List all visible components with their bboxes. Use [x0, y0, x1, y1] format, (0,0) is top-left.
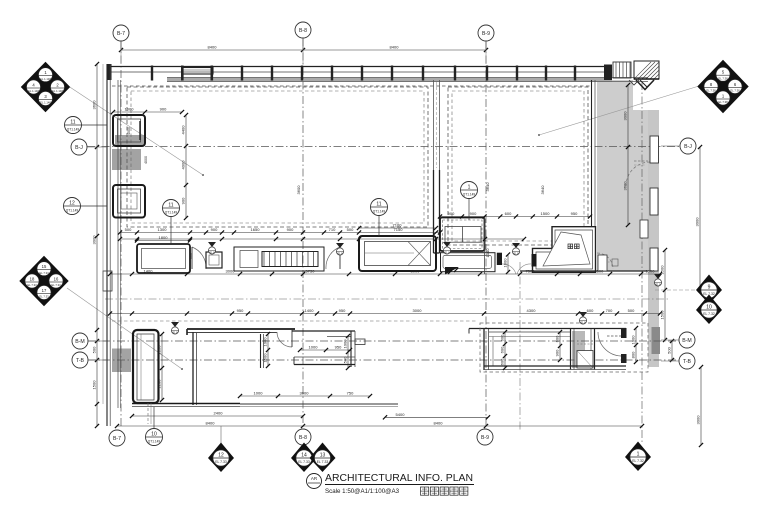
counter chain right part	[438, 211, 592, 219]
door arc lower-right room	[598, 332, 621, 356]
svg-text:B1.8: B1.8	[173, 332, 179, 335]
door dashed line right room	[607, 335, 621, 337]
grid line B-9 vertical	[485, 41, 487, 429]
small marker corridor	[605, 259, 618, 266]
svg-text:EL 7.33: EL 7.33	[215, 460, 227, 464]
wall edge x484	[484, 217, 486, 274]
leader from top-left cluster	[69, 87, 204, 177]
svg-text:EL 7.38: EL 7.38	[730, 89, 740, 93]
door arc lower-left room	[277, 329, 292, 347]
grey fixture lower right room	[572, 331, 585, 368]
ceiling dashed line top	[112, 85, 590, 87]
diamond cluster top-right	[698, 61, 748, 113]
grid bubble B-7 bottom	[109, 430, 125, 446]
bottom wall mid section	[240, 404, 398, 407]
mini dim vertical x158 cab	[157, 332, 165, 402]
cabinet upper-left 1	[113, 115, 145, 146]
svg-text:1500: 1500	[646, 269, 656, 274]
svg-text:600: 600	[500, 358, 505, 365]
room2 right wall	[592, 80, 596, 270]
svg-text:QT1.149: QT1.149	[148, 440, 161, 444]
svg-text:500: 500	[125, 227, 132, 232]
svg-text:950: 950	[339, 308, 346, 313]
svg-text:1800: 1800	[159, 235, 169, 240]
top dim chain	[119, 45, 488, 53]
svg-text:B-M: B-M	[682, 338, 692, 344]
svg-text:QT1.149: QT1.149	[66, 209, 79, 213]
svg-text:EL 7.33: EL 7.33	[317, 460, 329, 464]
title AR circle	[307, 474, 322, 489]
mini dim bottom lower-left	[238, 391, 372, 399]
room2 ceiling dashed rect	[448, 87, 588, 245]
grey cabinet fill	[115, 135, 144, 146]
svg-text:900: 900	[470, 211, 477, 216]
svg-text:8400: 8400	[208, 45, 218, 50]
counter B sofa	[359, 236, 436, 271]
svg-text:12: 12	[218, 453, 224, 459]
left dim chain vertical	[92, 62, 100, 428]
leader from top-right cluster	[538, 86, 699, 136]
duct shaft white box	[577, 344, 593, 368]
grey block strip dark	[652, 327, 661, 354]
title text	[325, 472, 473, 484]
svg-text:4000: 4000	[181, 160, 186, 170]
diamond cluster top-left	[22, 63, 70, 112]
svg-text:EL 7.38: EL 7.38	[718, 100, 728, 104]
svg-text:1000: 1000	[503, 258, 508, 268]
svg-text:1000: 1000	[263, 337, 268, 347]
svg-text:600: 600	[500, 346, 505, 353]
svg-text:B1.8: B1.8	[445, 252, 451, 255]
svg-text:11: 11	[168, 203, 173, 209]
grid corridor centerline horizontal	[105, 298, 668, 300]
svg-text:17: 17	[42, 288, 47, 293]
grey corridor right	[597, 80, 648, 271]
interior dim label x193	[189, 253, 193, 259]
svg-text:EL 1.148: EL 1.148	[28, 89, 39, 93]
svg-text:QT1.149: QT1.149	[67, 128, 80, 132]
right dim vertical x708	[696, 365, 704, 447]
grid line B-M horizontal	[88, 340, 679, 342]
svg-text:12: 12	[69, 201, 75, 207]
svg-text:B-J: B-J	[684, 144, 692, 150]
diamond 9 leader	[655, 289, 696, 291]
cabinet lower-left tall	[133, 330, 159, 403]
svg-text:Scale 1:50@A1/1:100@A3: Scale 1:50@A1/1:100@A3	[325, 488, 399, 495]
svg-text:3640: 3640	[540, 185, 545, 195]
svg-text:16: 16	[54, 277, 59, 282]
svg-text:10: 10	[706, 305, 712, 311]
svg-text:500: 500	[628, 308, 635, 313]
cabinet upper-left 2	[113, 185, 145, 218]
svg-text:600: 600	[587, 308, 594, 313]
svg-text:900: 900	[211, 227, 218, 232]
grid bubble B-M right	[661, 332, 695, 348]
svg-text:EL 7.38: EL 7.38	[718, 76, 728, 80]
svg-text:3000: 3000	[696, 415, 701, 425]
marker counter 1	[208, 242, 216, 255]
console center outer	[234, 247, 324, 271]
hatch block diagonal	[634, 61, 659, 79]
svg-text:EL 1.148: EL 1.148	[40, 101, 51, 105]
svg-text:T-B: T-B	[683, 359, 692, 365]
svg-text:1500: 1500	[660, 265, 665, 275]
bottom dim 2400	[130, 411, 305, 419]
room1 ceiling dashed rect	[127, 87, 428, 227]
svg-text:QT1.149: QT1.149	[165, 211, 178, 215]
double door arcs	[502, 264, 531, 274]
left wall inner lines	[118, 80, 121, 408]
callout circle bottom 10	[146, 407, 163, 446]
svg-text:9: 9	[708, 285, 711, 291]
svg-text:600: 600	[505, 211, 512, 216]
hatch block vertical lines	[613, 62, 631, 78]
mini dim cabinet A	[135, 235, 192, 243]
svg-text:710: 710	[329, 227, 336, 232]
svg-text:700: 700	[606, 308, 613, 313]
left dim chain vertical 2	[102, 64, 104, 404]
side table small	[206, 252, 222, 268]
svg-text:900: 900	[287, 227, 294, 232]
corridor door arc lower	[597, 253, 613, 269]
svg-text:600: 600	[555, 335, 560, 342]
top wall band lines	[167, 78, 648, 82]
svg-text:EL 7.38: EL 7.38	[706, 89, 716, 93]
grid bubble B-M left	[72, 333, 107, 349]
svg-text:5400: 5400	[396, 412, 406, 417]
door arc right of console	[326, 247, 340, 269]
wall stub x260	[261, 334, 264, 368]
grid line right vertical x642	[641, 82, 643, 443]
chevron marks under hatch	[629, 80, 654, 90]
corridor dim chain lower	[108, 308, 662, 316]
svg-text:1500: 1500	[541, 211, 551, 216]
svg-text:15: 15	[42, 264, 47, 269]
svg-text:600: 600	[189, 253, 193, 259]
svg-text:1400: 1400	[305, 308, 315, 313]
mini dim top room1	[111, 107, 184, 115]
svg-text:7500: 7500	[526, 269, 536, 274]
grid bubble B-8 top	[295, 22, 311, 50]
svg-text:8400: 8400	[206, 421, 216, 426]
console center striped unit	[262, 252, 318, 267]
grid bubble T-B left	[72, 352, 107, 368]
svg-text:1000: 1000	[343, 339, 348, 349]
lower-right room bottom wall	[484, 366, 626, 370]
corridor door arc upper	[626, 161, 650, 186]
svg-text:T-B: T-B	[76, 358, 85, 364]
callout circle room2	[461, 182, 478, 221]
svg-text:3000: 3000	[92, 235, 97, 245]
svg-text:3000: 3000	[623, 111, 628, 121]
wall mid y331	[292, 331, 355, 337]
svg-text:600: 600	[597, 269, 604, 274]
svg-text:1650: 1650	[251, 227, 261, 232]
svg-text:EL 7.33: EL 7.33	[51, 283, 61, 287]
svg-text:B-J: B-J	[75, 145, 83, 151]
dim y417 segment	[383, 412, 490, 420]
cabinet lower lines	[148, 403, 151, 424]
svg-text:B1.8: B1.8	[338, 253, 344, 256]
svg-text:2400: 2400	[214, 411, 224, 416]
interior dim labels x545	[540, 185, 545, 195]
mini dim vertical x505	[500, 330, 508, 370]
diamond 12 leader	[220, 426, 222, 444]
callout circle room1 left	[163, 200, 180, 245]
svg-text:10: 10	[151, 432, 157, 438]
corridor wall below shaft	[520, 270, 648, 272]
svg-text:3000: 3000	[300, 391, 310, 396]
grid bubble T-B right	[661, 353, 695, 369]
mini dim vertical room1 left	[181, 113, 189, 220]
grey block left lower	[112, 349, 131, 373]
svg-text:B-7: B-7	[113, 436, 121, 442]
svg-text:3600: 3600	[623, 181, 628, 191]
svg-text:4000: 4000	[144, 156, 148, 164]
counter C lower shelf	[441, 253, 496, 272]
svg-text:8400: 8400	[434, 421, 444, 426]
grid line B-8 vertical	[302, 38, 304, 449]
counter A left	[137, 244, 190, 273]
shaft jamb black	[532, 254, 537, 267]
svg-text:500: 500	[343, 356, 348, 363]
mini dim above cabinet B	[357, 223, 438, 231]
svg-text:EL 7.33: EL 7.33	[298, 460, 310, 464]
right dim vertical x672	[667, 339, 675, 362]
svg-text:500: 500	[92, 346, 97, 353]
svg-text:4400: 4400	[181, 125, 186, 135]
door jamb x497	[497, 253, 502, 265]
mini dim corridor right v	[660, 248, 668, 342]
corridor slot middle	[650, 188, 658, 215]
grid line B-J horizontal	[87, 146, 680, 148]
svg-text:B-8: B-8	[299, 28, 307, 34]
marker lower right	[579, 312, 587, 325]
svg-text:900: 900	[448, 211, 455, 216]
title underline	[325, 484, 474, 486]
marker counter 2	[336, 243, 344, 256]
grid line B-7 vertical	[120, 41, 122, 428]
callout circle 11 left-top	[65, 117, 108, 134]
svg-text:4300: 4300	[527, 308, 537, 313]
white notch under hatch	[633, 80, 659, 110]
svg-text:1000: 1000	[631, 335, 636, 345]
corridor white box	[598, 255, 607, 271]
wall lower corridor y357	[294, 357, 355, 365]
counter dim chain second	[118, 237, 526, 241]
top wall outer line	[107, 66, 612, 68]
svg-text:3000: 3000	[411, 269, 421, 274]
svg-text:11: 11	[376, 202, 381, 208]
svg-text:EL 7.32: EL 7.32	[703, 312, 715, 316]
wall vertical x193	[193, 332, 197, 405]
svg-text:1040: 1040	[485, 248, 490, 258]
svg-text:1500: 1500	[660, 310, 665, 320]
svg-text:3000: 3000	[695, 217, 700, 227]
left wall outer lines	[107, 64, 110, 426]
svg-text:750: 750	[347, 391, 354, 396]
diamond cluster left	[20, 257, 68, 306]
marker left of shaft	[512, 243, 520, 256]
svg-text:3000: 3000	[226, 269, 236, 274]
svg-text:B-9: B-9	[481, 435, 489, 441]
svg-text:2150: 2150	[157, 345, 162, 355]
svg-text:QT1.149: QT1.149	[463, 193, 476, 197]
corridor left end box	[103, 271, 112, 291]
svg-text:950: 950	[335, 345, 342, 350]
grid line x520 vertical	[519, 262, 521, 430]
grey column strip right	[648, 80, 659, 367]
marker above wall x175	[171, 322, 179, 335]
svg-text:1500: 1500	[92, 380, 97, 390]
svg-text:EL 1.148: EL 1.148	[40, 77, 51, 81]
mini dim vertical x268 room	[263, 332, 271, 368]
divider wall between rooms	[434, 80, 440, 253]
lower-right room top wall	[469, 329, 626, 334]
lower-right room left wall	[484, 328, 489, 370]
grid bubble B-7 top	[113, 25, 129, 50]
callout circle room1 right	[371, 199, 388, 237]
marker counter 3	[443, 242, 451, 255]
svg-text:1000: 1000	[309, 345, 319, 350]
wall lower y330 left	[187, 329, 295, 335]
diamond 13 bottom	[310, 443, 336, 473]
door arc counter A	[192, 247, 206, 269]
lower rooms dashed top line	[112, 320, 478, 322]
svg-text:1300: 1300	[158, 227, 168, 232]
interior dim labels cabinet1	[127, 127, 148, 164]
svg-text:1000: 1000	[254, 391, 264, 396]
svg-text:B-M: B-M	[75, 339, 85, 345]
svg-text:3600: 3600	[92, 100, 97, 110]
top wall corner post left	[107, 64, 112, 80]
svg-text:1: 1	[468, 185, 471, 191]
grey band top wall	[167, 78, 612, 82]
mini dim vertical right room2	[623, 83, 631, 227]
interior dim labels B9	[485, 182, 490, 258]
svg-text:4500: 4500	[127, 127, 131, 135]
svg-text:8400: 8400	[390, 45, 400, 50]
svg-text:ARCHITECTURAL INFO. PLAN: ARCHITECTURAL INFO. PLAN	[325, 472, 473, 484]
dim vertical x508	[503, 252, 511, 274]
grid bubble B-9 top	[478, 25, 494, 50]
svg-text:18: 18	[30, 277, 35, 282]
black wedge stairs	[445, 267, 459, 275]
svg-text:AR: AR	[311, 476, 318, 481]
svg-text:B1.8: B1.8	[210, 252, 216, 255]
title scale text	[325, 488, 399, 495]
svg-text:500: 500	[347, 227, 354, 232]
svg-text:500: 500	[667, 346, 672, 353]
svg-text:3640: 3640	[485, 182, 490, 192]
svg-text:B-7: B-7	[117, 31, 125, 37]
svg-text:B-9: B-9	[482, 31, 490, 37]
svg-text:B1.8: B1.8	[656, 284, 662, 287]
grid bubble B-J right	[661, 138, 696, 154]
diamond 12 bottom	[208, 443, 234, 473]
counter dim chain	[118, 227, 442, 235]
dim vertical x636 room	[631, 326, 639, 364]
svg-text:600: 600	[500, 334, 505, 341]
svg-text:EL 7.33: EL 7.33	[39, 295, 49, 299]
svg-text:13: 13	[320, 453, 326, 459]
corridor dim chain upper	[108, 269, 662, 277]
shaft trapezoid	[543, 232, 590, 266]
mini dim lower mid	[298, 345, 352, 353]
right dim vertical x700	[695, 145, 703, 292]
diamond 1 bottom right	[625, 442, 651, 472]
svg-text:QT1.149: QT1.149	[373, 210, 386, 214]
lower-right room inner line	[489, 337, 570, 367]
diamond 14 bottom	[291, 443, 317, 473]
grid line T-B horizontal	[88, 359, 679, 361]
grid bubble B-J left	[71, 139, 107, 155]
svg-text:950: 950	[571, 211, 578, 216]
svg-text:B-8: B-8	[299, 435, 307, 441]
corridor small box	[640, 220, 648, 238]
top dim verticals	[121, 38, 486, 64]
grid bubble B-8 bottom	[295, 429, 311, 445]
svg-text:1400: 1400	[144, 269, 154, 274]
svg-text:EL 7.33: EL 7.33	[39, 271, 49, 275]
grid bubble B-9 bottom	[477, 429, 493, 445]
svg-text:EL 1.148: EL 1.148	[52, 89, 63, 93]
door jamb upper right room	[621, 328, 627, 338]
corridor slot upper	[650, 136, 659, 163]
svg-text:EL 7.33: EL 7.33	[27, 283, 37, 287]
svg-text:900: 900	[555, 349, 560, 356]
mini dim vertical x560	[555, 330, 563, 362]
corridor slot lower	[650, 248, 658, 271]
door jamb lower right room	[621, 354, 627, 363]
grey block left upper	[112, 149, 141, 170]
svg-text:900: 900	[181, 197, 186, 204]
top wall mullion posts	[151, 66, 576, 81]
svg-text:3600: 3600	[296, 185, 301, 195]
callout circle 12 left	[64, 198, 108, 215]
svg-text:800: 800	[631, 351, 636, 358]
counter C upper	[440, 218, 485, 252]
svg-text:900: 900	[160, 107, 167, 112]
svg-text:1000: 1000	[125, 107, 135, 112]
marker right strip	[654, 274, 662, 287]
svg-text:EL 7.32: EL 7.32	[632, 459, 644, 463]
svg-text:B1.8: B1.8	[514, 253, 520, 256]
leader from left cluster	[67, 288, 183, 370]
svg-text:11: 11	[70, 120, 75, 126]
shaft room walls	[533, 227, 596, 273]
top wall end post right	[604, 65, 612, 81]
lower-right room dashed rect	[480, 323, 648, 372]
bottom dim chain	[115, 421, 644, 429]
svg-text:950: 950	[237, 308, 244, 313]
svg-text:5730: 5730	[306, 269, 316, 274]
svg-text:B1.8: B1.8	[581, 322, 587, 325]
mini dim vertical x348 lower	[343, 334, 351, 370]
window frame top wall	[181, 66, 213, 81]
svg-text:7100: 7100	[393, 223, 403, 228]
top wall inner line	[107, 71, 612, 73]
small box right of wall	[355, 339, 365, 345]
bottom wall left section	[132, 404, 240, 407]
svg-text:3000: 3000	[413, 308, 423, 313]
svg-text:1200: 1200	[157, 379, 162, 389]
diamond 9 right	[696, 275, 722, 305]
interior dim labels B8	[296, 185, 301, 195]
diamond 10 right	[696, 295, 722, 325]
wall right vertical x351	[351, 331, 355, 367]
svg-text:1: 1	[637, 452, 640, 458]
